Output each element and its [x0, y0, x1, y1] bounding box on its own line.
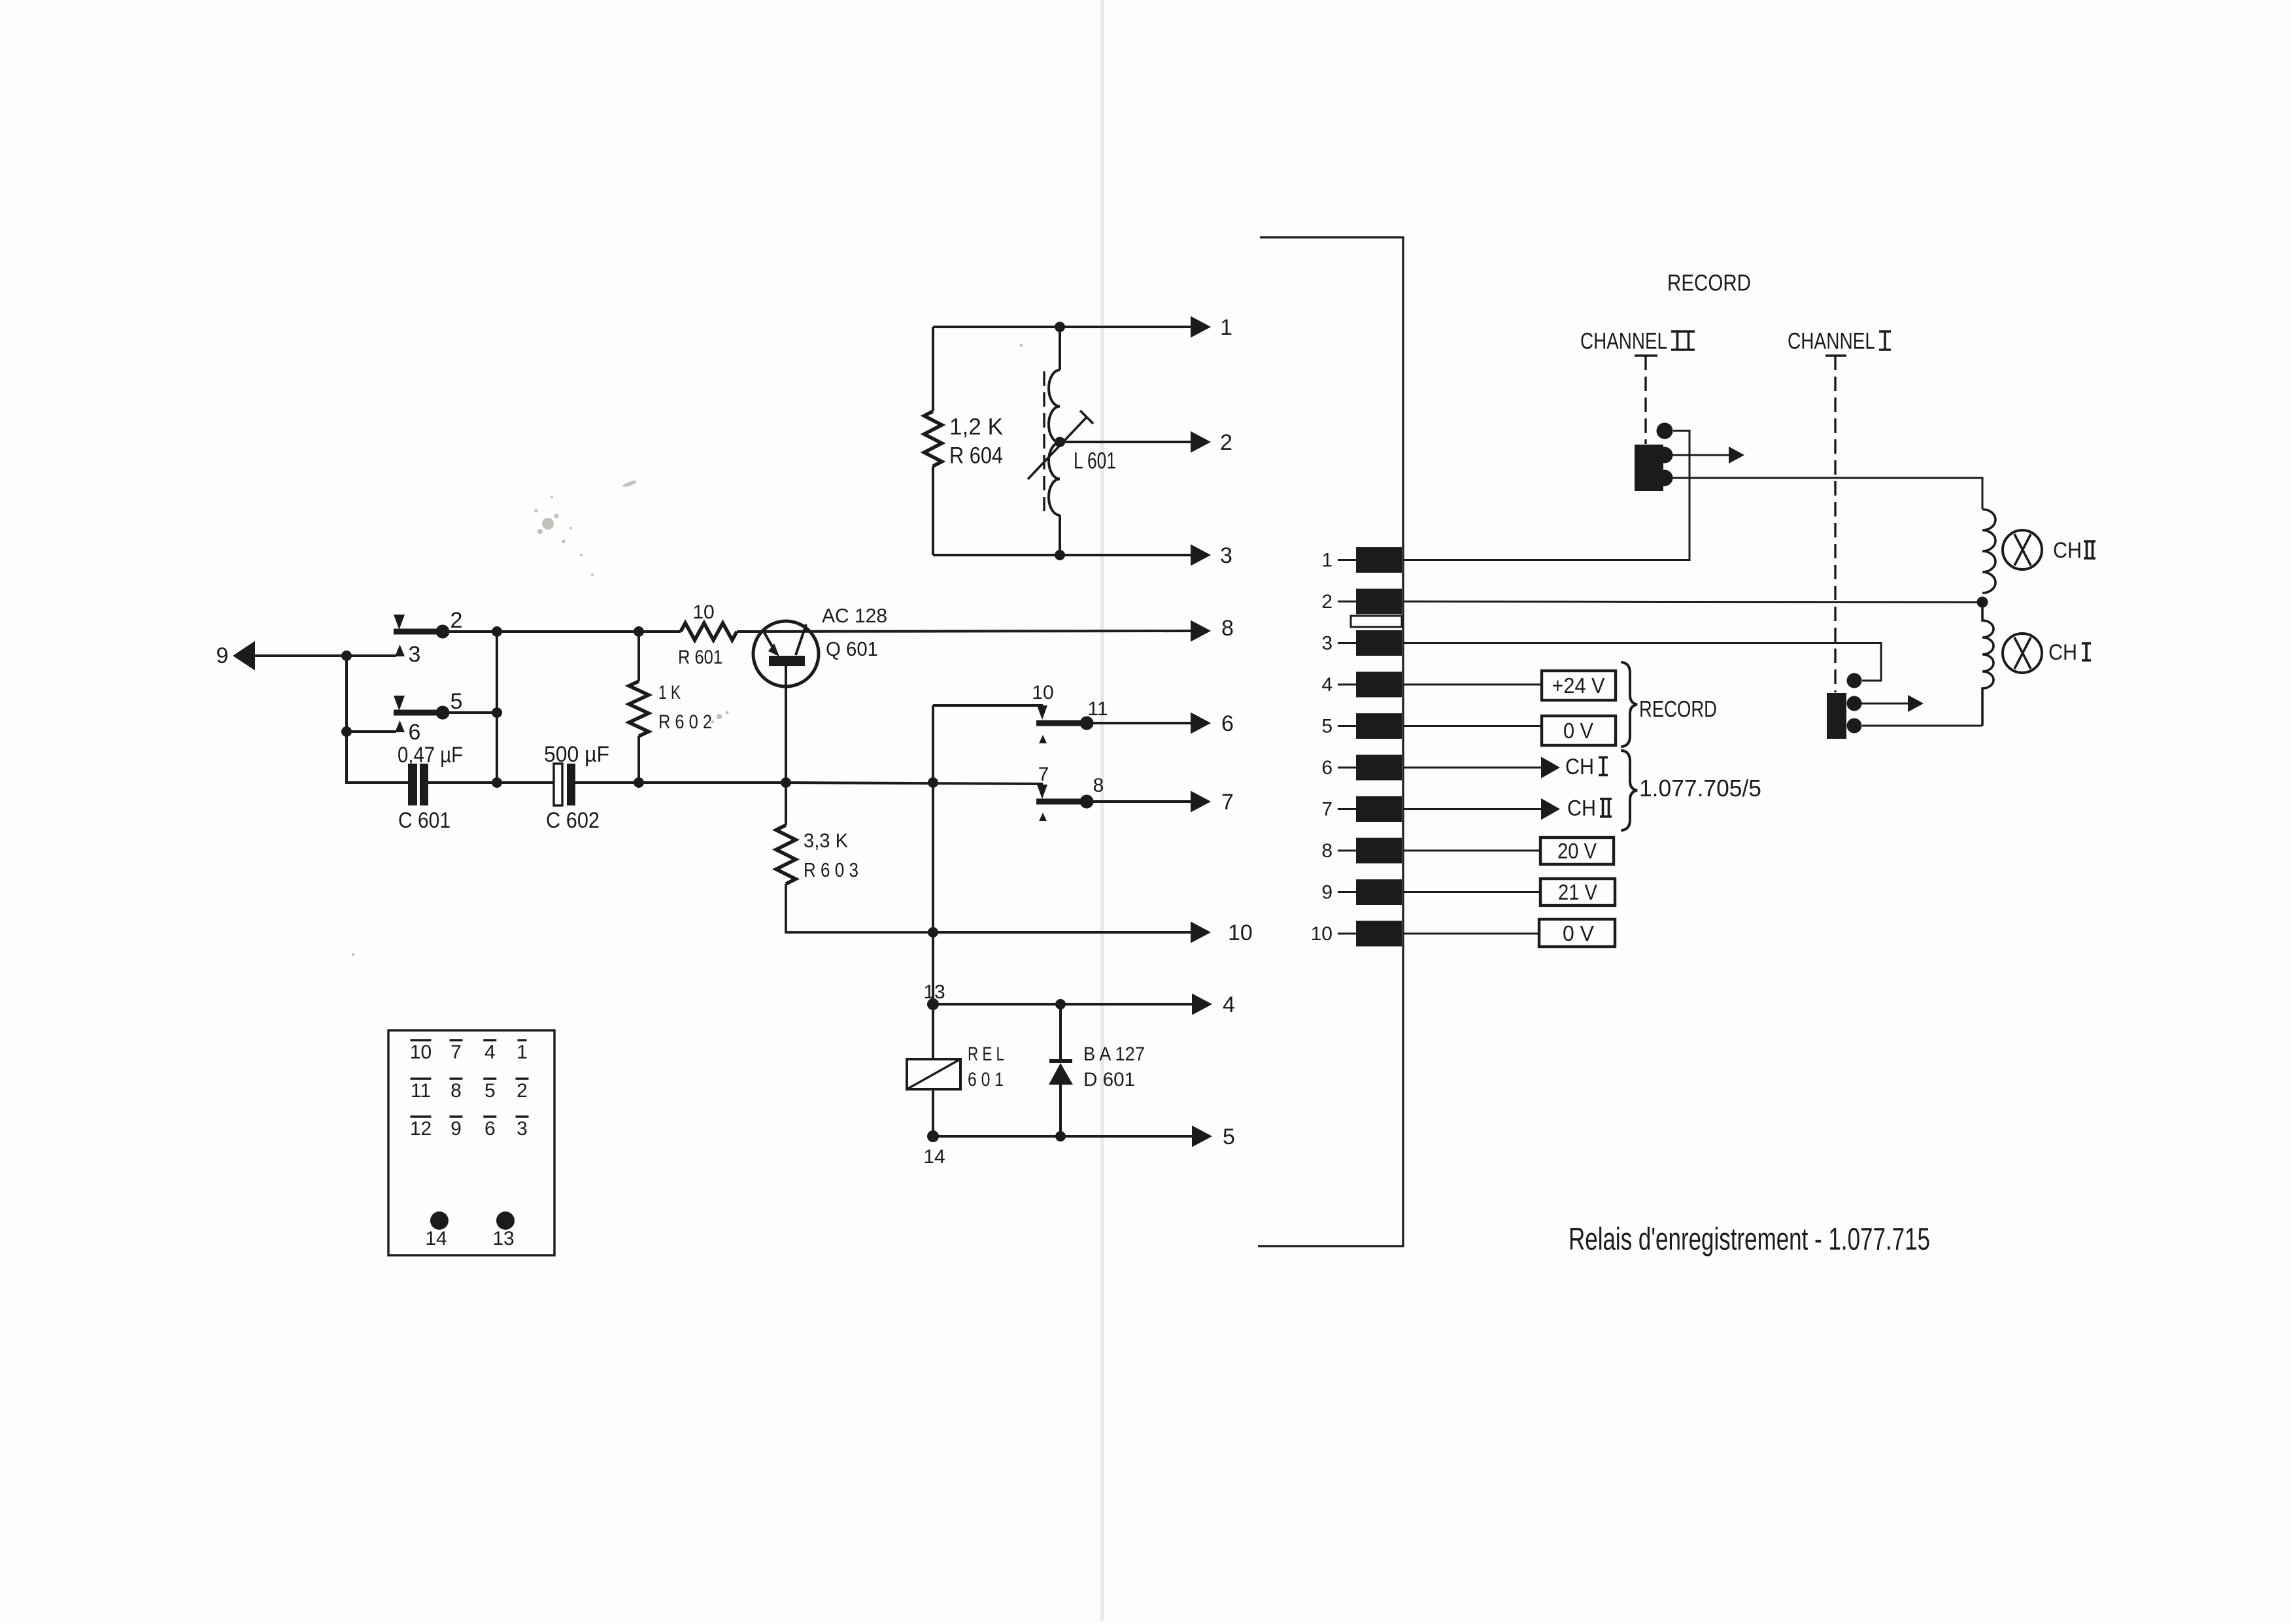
terminal arrow 2 — [1191, 431, 1211, 453]
svg-text:4: 4 — [484, 1041, 496, 1063]
resistor R602 bottom lead — [637, 736, 640, 783]
terminal arrow 4 — [1192, 994, 1212, 1015]
label CH I — [1565, 754, 1608, 779]
L601 adjustment arrow — [1028, 417, 1087, 479]
svg-text:6: 6 — [409, 720, 421, 745]
svg-text:1 K: 1 K — [658, 682, 681, 703]
label CH II (head) — [2053, 538, 2096, 563]
svg-text:RECORD: RECORD — [1667, 271, 1751, 296]
connector pad 1 — [1356, 547, 1402, 573]
svg-text:R 6 0 3: R 6 0 3 — [804, 858, 858, 881]
capacitor C602 plate left (outlined) — [554, 764, 562, 805]
arrowhead CH II — [1541, 798, 1560, 820]
connector pad 4 — [1356, 672, 1402, 698]
pad 10 pin label — [1311, 923, 1356, 945]
wire contact 5 to node C — [449, 711, 497, 714]
wire C601 to C602 — [428, 781, 554, 784]
wire emitter rail to switch contact 7 — [786, 783, 1043, 784]
connector pad 9 — [1356, 879, 1402, 905]
diode D601 anode lead — [1059, 1083, 1062, 1136]
brace RECORD — [1622, 662, 1637, 747]
svg-text:1,2 K: 1,2 K — [949, 414, 1003, 440]
svg-text:10: 10 — [1032, 682, 1053, 703]
svg-text:9: 9 — [1321, 881, 1332, 903]
diode D601 cathode bar — [1049, 1059, 1072, 1063]
svg-text:5: 5 — [1321, 715, 1332, 737]
terminal arrow 1 — [1191, 316, 1211, 338]
wire node B down to node C — [496, 632, 498, 784]
switch S1 release triangle — [394, 615, 405, 630]
switch S4 movable bar (contact 8) — [1036, 799, 1093, 805]
L601 core dashed line — [1043, 371, 1045, 513]
svg-text:14: 14 — [425, 1228, 447, 1249]
resistor R601 body 10 ohm — [681, 623, 737, 640]
switch S4 contact dot 8 — [1080, 795, 1094, 809]
svg-text:13: 13 — [492, 1228, 514, 1249]
svg-text:RECORD: RECORD — [1639, 697, 1717, 722]
switch S1 movable bar (contact 2) — [394, 629, 447, 635]
resistor R602 body 1K — [629, 681, 649, 736]
label CHANNEL I — [1788, 329, 1891, 354]
svg-text:13: 13 — [923, 981, 945, 1003]
pad 5 pin label — [1321, 715, 1356, 737]
CHANNEL I tick bar — [1825, 354, 1846, 356]
svg-text:7: 7 — [450, 1041, 462, 1063]
connector pad 3 — [1356, 630, 1402, 656]
wire pad 4 to +24V box — [1403, 684, 1542, 686]
emitter node junction dot — [781, 777, 791, 788]
connector pad 2 — [1356, 589, 1402, 615]
wire node A down to ground rail — [345, 656, 348, 784]
switch S4 NO triangle — [1039, 813, 1047, 821]
wire pad 3 to CHI head connector riser — [1403, 643, 1881, 681]
switch S3 movable bar (contact 11) — [1036, 720, 1093, 726]
L601 tap junction dot — [1055, 437, 1065, 447]
svg-text:Q 601: Q 601 — [826, 637, 878, 660]
resistor R604 bottom lead — [932, 466, 934, 555]
svg-text:6: 6 — [1321, 757, 1332, 779]
svg-text:2: 2 — [1321, 591, 1332, 613]
+24V box — [1542, 671, 1616, 700]
wire node 13 to terminal 4 — [933, 1003, 1193, 1006]
svg-text:2: 2 — [1220, 430, 1232, 455]
junction dot D601 top — [1055, 999, 1066, 1009]
pad 9 pin label — [1321, 881, 1356, 903]
legend pin 9 with overbar — [450, 1117, 463, 1140]
svg-text:1: 1 — [1220, 315, 1232, 340]
switch S1 contact dot 2 — [436, 625, 450, 639]
svg-text:8: 8 — [1093, 775, 1104, 796]
legend pin 5 with overbar — [483, 1079, 496, 1102]
wire pad 8 to 20V box — [1403, 850, 1540, 852]
capacitor C601 plate left — [408, 764, 417, 805]
resistor R603 body 3,3K — [776, 825, 796, 884]
pad 1 pin label — [1321, 549, 1356, 571]
wire R602 bottom to Q601 emitter node — [639, 781, 786, 784]
wire C602 to R602 bottom — [575, 781, 639, 784]
svg-text:2: 2 — [517, 1080, 528, 1102]
svg-text:9: 9 — [216, 643, 229, 668]
svg-text:5: 5 — [450, 689, 463, 714]
vertical bus from switch block down to relay node 13 — [932, 705, 934, 1004]
svg-text:3: 3 — [517, 1118, 528, 1140]
legend pin 11 with overbar — [411, 1079, 432, 1102]
capacitor C602 plate right — [567, 764, 575, 805]
svg-text:3: 3 — [409, 642, 421, 667]
wire contact 8 to terminal 7 — [1093, 800, 1191, 803]
wire contact 11 to terminal 6 — [1093, 722, 1191, 724]
connector pad 10 — [1356, 921, 1402, 947]
svg-text:4: 4 — [1321, 674, 1332, 696]
wire tap to terminal 2 — [1060, 441, 1191, 443]
resistor R604 top lead — [932, 327, 934, 411]
wire contact 2 to node B — [449, 630, 497, 633]
svg-text:B A 127: B A 127 — [1083, 1043, 1145, 1065]
switch S4 fixed contact 7 triangle — [1037, 785, 1047, 799]
wire CHI coil bottom to CHI connector lower pin — [1862, 725, 1982, 727]
resistor R603 top lead — [785, 783, 787, 825]
node 14 junction dot — [927, 1130, 939, 1142]
record head CH II symbol — [2003, 530, 2042, 569]
CHI connector pin dot middle — [1847, 696, 1862, 711]
wire pad 2 to head coil centre tap — [1403, 601, 1982, 602]
junction dot L601 bottom — [1055, 550, 1065, 560]
svg-text:0,47 µF: 0,47 µF — [398, 743, 463, 768]
svg-text:10: 10 — [692, 601, 714, 623]
node C junction — [492, 707, 502, 718]
svg-text:1: 1 — [1321, 549, 1332, 571]
CHANNEL II tick bar — [1635, 354, 1657, 356]
connector board outline — [1258, 237, 1403, 1246]
wire pad 1 to CHII head connector riser — [1403, 431, 1689, 560]
switch S2 release triangle — [394, 696, 405, 711]
wire bottom rail to terminal 3 — [933, 554, 1191, 556]
svg-text:7: 7 — [1321, 798, 1332, 820]
junction dot L601 top — [1055, 322, 1065, 332]
CHII connector arrow (to amplifier) — [1672, 454, 1731, 456]
resistor R603 bottom lead and corner to terminal 10 rail — [786, 884, 933, 932]
svg-text:12: 12 — [410, 1118, 432, 1140]
svg-text:10: 10 — [1311, 923, 1332, 945]
coil centre tap junction dot — [1977, 597, 1988, 608]
svg-text:L 601: L 601 — [1074, 448, 1116, 474]
label CH I (head) — [2048, 640, 2091, 665]
svg-text:4: 4 — [1223, 992, 1235, 1017]
svg-text:6: 6 — [484, 1118, 496, 1140]
wire to terminal arrow 10 — [933, 931, 1191, 934]
21V box — [1540, 879, 1615, 905]
wire pad 9 to 21V box — [1403, 891, 1540, 893]
wire pad 10 to 0V box — [1403, 933, 1539, 935]
wire pad 6 to CH I arrow — [1403, 767, 1542, 769]
pad 7 pin label — [1321, 798, 1356, 820]
legend pin 3 with overbar — [516, 1117, 529, 1140]
transistor Q601 AC128 envelope circle — [753, 621, 819, 686]
CHANNEL I dashed line — [1834, 356, 1836, 692]
switch S3 contact dot 11 — [1080, 717, 1094, 730]
wire node A to contact 3 — [347, 654, 396, 657]
connector pad 8 — [1356, 838, 1402, 864]
svg-text:CH: CH — [1565, 754, 1594, 779]
wire node B to R601 — [497, 630, 681, 633]
svg-text:2: 2 — [450, 608, 463, 633]
svg-text:0 V: 0 V — [1563, 921, 1594, 945]
terminal arrow 9 — [233, 641, 347, 671]
junction dot R602 top — [634, 626, 644, 637]
svg-text:R 604: R 604 — [949, 443, 1003, 469]
inductor L601 coil — [1049, 370, 1060, 515]
legend pin 7 with overbar — [450, 1040, 463, 1063]
wire pad 5 to 0V box — [1403, 725, 1542, 727]
Q601 collector diagonal — [796, 624, 806, 655]
legend pin 6 with overbar — [483, 1117, 496, 1140]
svg-text:6 0 1: 6 0 1 — [968, 1069, 1004, 1091]
switch S2 fixed contact 6 (NO) — [395, 720, 405, 732]
pad 3 pin label — [1321, 632, 1356, 654]
wire node 14 to terminal 5 — [933, 1135, 1193, 1138]
ground rail wire: node A corner to C601 — [347, 781, 409, 784]
svg-text:R E L: R E L — [968, 1043, 1004, 1065]
label CH II — [1567, 796, 1612, 821]
switch S2 contact dot 5 — [436, 706, 450, 720]
svg-text:10: 10 — [410, 1041, 432, 1063]
node 13 junction dot — [927, 998, 939, 1010]
pad 8 pin label — [1321, 840, 1356, 862]
relay coil bottom lead — [932, 1089, 934, 1136]
connector pad 7 — [1356, 796, 1402, 822]
svg-text:D 601: D 601 — [1083, 1069, 1135, 1091]
label CHANNEL II — [1580, 329, 1695, 354]
svg-text:R 6 0 2: R 6 0 2 — [658, 711, 712, 733]
svg-text:20 V: 20 V — [1557, 839, 1597, 863]
legend pin 13 dot — [496, 1211, 515, 1230]
CHII connector pin dot lower — [1657, 470, 1673, 486]
svg-text:3: 3 — [1220, 543, 1232, 568]
resistor R602 top lead — [637, 632, 640, 681]
svg-text:10: 10 — [1228, 921, 1253, 945]
CHANNEL II dashed line — [1644, 356, 1646, 444]
relay coil REL601 top lead — [932, 1004, 934, 1059]
inductor L601 bottom lead — [1059, 515, 1061, 555]
svg-text:Relais d'enregistrement - 1.: Relais d'enregistrement - 1.077.715 — [1569, 1222, 1930, 1257]
svg-text:11: 11 — [1087, 698, 1108, 720]
record head coil CH II — [1982, 509, 1995, 593]
svg-text:5: 5 — [484, 1080, 496, 1102]
svg-text:8: 8 — [450, 1080, 462, 1102]
svg-text:CHANNEL: CHANNEL — [1788, 329, 1875, 354]
terminal arrow 8 — [1191, 620, 1211, 642]
legend pin 12 with overbar — [410, 1117, 432, 1140]
svg-text:500 µF: 500 µF — [544, 742, 609, 767]
svg-text:CHANNEL: CHANNEL — [1580, 329, 1667, 354]
junction dot emitter-rail / bus — [928, 777, 938, 788]
svg-text:CH: CH — [2048, 640, 2077, 665]
svg-text:R 601: R 601 — [678, 647, 722, 668]
pad 6 pin label — [1321, 757, 1356, 779]
terminal arrow 5 — [1192, 1126, 1212, 1147]
CHII head connector block — [1635, 445, 1663, 491]
terminal arrow 3 — [1191, 545, 1211, 566]
svg-text:9: 9 — [450, 1118, 462, 1140]
svg-text:1: 1 — [517, 1041, 528, 1063]
0V box (record) — [1542, 716, 1616, 745]
legend pin 1 with overbar — [517, 1040, 528, 1063]
legend pin 8 with overbar — [450, 1079, 463, 1102]
legend pin 4 with overbar — [483, 1040, 496, 1063]
pad 2 pin label — [1321, 591, 1356, 613]
node A junction (switch common) — [341, 651, 352, 661]
node B junction — [492, 626, 502, 637]
svg-text:21 V: 21 V — [1558, 880, 1597, 904]
arrowhead CH I — [1541, 757, 1560, 779]
legend pin 14 dot — [430, 1211, 449, 1230]
CHI connector pin dot upper — [1847, 673, 1862, 688]
junction dot D601 bottom — [1055, 1131, 1066, 1142]
svg-text:7: 7 — [1221, 790, 1234, 815]
svg-text:14: 14 — [923, 1146, 945, 1168]
svg-text:1.077.705/5: 1.077.705/5 — [1639, 775, 1761, 802]
relay REL 601 coil box — [907, 1059, 960, 1089]
switch S2 movable bar (contact 5) — [394, 710, 447, 716]
junction dot below node B — [492, 777, 502, 788]
CHI connector pin dot lower — [1847, 719, 1862, 734]
Q601 emitter lead down to node — [785, 666, 787, 783]
svg-text:11: 11 — [411, 1080, 431, 1102]
switch S1 fixed contact 3 (NO) — [395, 645, 405, 656]
legend pin 10 with overbar — [410, 1040, 432, 1063]
junction dot on terminal 10 rail — [928, 927, 938, 938]
wire to contact 6 — [347, 730, 396, 733]
svg-text:AC 128: AC 128 — [822, 604, 887, 627]
svg-text:CH: CH — [1567, 796, 1596, 821]
terminal arrow 10 — [1191, 922, 1211, 943]
capacitor C601 plate right — [420, 764, 428, 805]
connector pad 6 — [1356, 755, 1402, 781]
junction dot R602 bottom — [634, 777, 644, 788]
svg-text:8: 8 — [1221, 616, 1234, 641]
terminal arrow 7 — [1191, 791, 1211, 813]
CHI head connector block — [1827, 693, 1846, 739]
connector pad 5 — [1356, 713, 1402, 739]
Q601 base plate bar — [769, 656, 805, 666]
wire CHII lower pin to head coil — [1672, 478, 1982, 509]
svg-text:7: 7 — [1038, 764, 1049, 785]
svg-text:5: 5 — [1223, 1125, 1235, 1149]
resistor R604 body 1,2K — [925, 411, 942, 466]
diode D601 triangle — [1049, 1063, 1073, 1085]
CHII connector pin dot upper — [1657, 423, 1673, 439]
connector key slot — [1351, 616, 1402, 627]
svg-text:6: 6 — [1221, 711, 1234, 736]
record head CH I symbol — [2003, 634, 2042, 673]
switch S3 fixed contact 10 triangle — [1037, 705, 1047, 720]
20V box — [1540, 837, 1614, 864]
legend pin 2 with overbar — [516, 1079, 529, 1102]
wire bus corner to switch contact 10 — [933, 704, 1043, 707]
brace 1.077.705/5 — [1622, 751, 1637, 830]
switch S3 NO triangle — [1039, 735, 1047, 743]
inductor L601 top lead — [1059, 327, 1061, 370]
svg-text:C 601: C 601 — [398, 808, 450, 833]
svg-text:+24 V: +24 V — [1552, 673, 1605, 698]
svg-text:C 602: C 602 — [546, 808, 600, 833]
pad 4 pin label — [1321, 674, 1356, 696]
svg-text:3: 3 — [1321, 632, 1332, 654]
relay socket legend box — [388, 1030, 554, 1255]
wire top rail to terminal 1 — [933, 326, 1191, 328]
svg-text:CH: CH — [2053, 538, 2082, 563]
Q601 emitter diagonal with arrow — [764, 632, 777, 654]
wire R601 through Q601 to terminal 8 — [737, 631, 1191, 632]
0V box (bottom) — [1539, 919, 1615, 947]
diode D601 cathode lead — [1059, 1004, 1062, 1061]
svg-text:8: 8 — [1321, 840, 1332, 862]
CHII connector pin dot middle — [1657, 447, 1673, 464]
svg-text:3,3 K: 3,3 K — [804, 829, 848, 852]
CHI connector arrow (to amplifier) — [1861, 703, 1910, 705]
node junction to contact 6 — [341, 726, 352, 737]
terminal arrow 6 — [1191, 713, 1211, 734]
wire pad 7 to CH II arrow — [1403, 808, 1542, 810]
svg-text:0 V: 0 V — [1563, 719, 1593, 743]
record head coil CH I — [1982, 602, 1994, 726]
